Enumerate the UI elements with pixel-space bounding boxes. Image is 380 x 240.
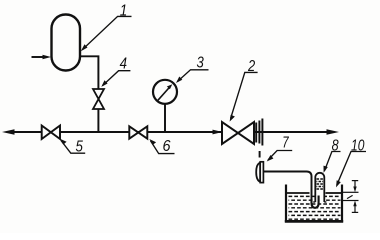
svg-text:2: 2 [247,58,255,75]
svg-text:6: 6 [163,138,171,155]
svg-text:3: 3 [197,55,205,72]
svg-text:10: 10 [351,137,365,154]
svg-text:8: 8 [332,137,339,154]
svg-text:4: 4 [120,56,128,73]
svg-text:1: 1 [120,2,128,19]
svg-text:7: 7 [282,134,289,151]
svg-text:5: 5 [76,139,84,156]
